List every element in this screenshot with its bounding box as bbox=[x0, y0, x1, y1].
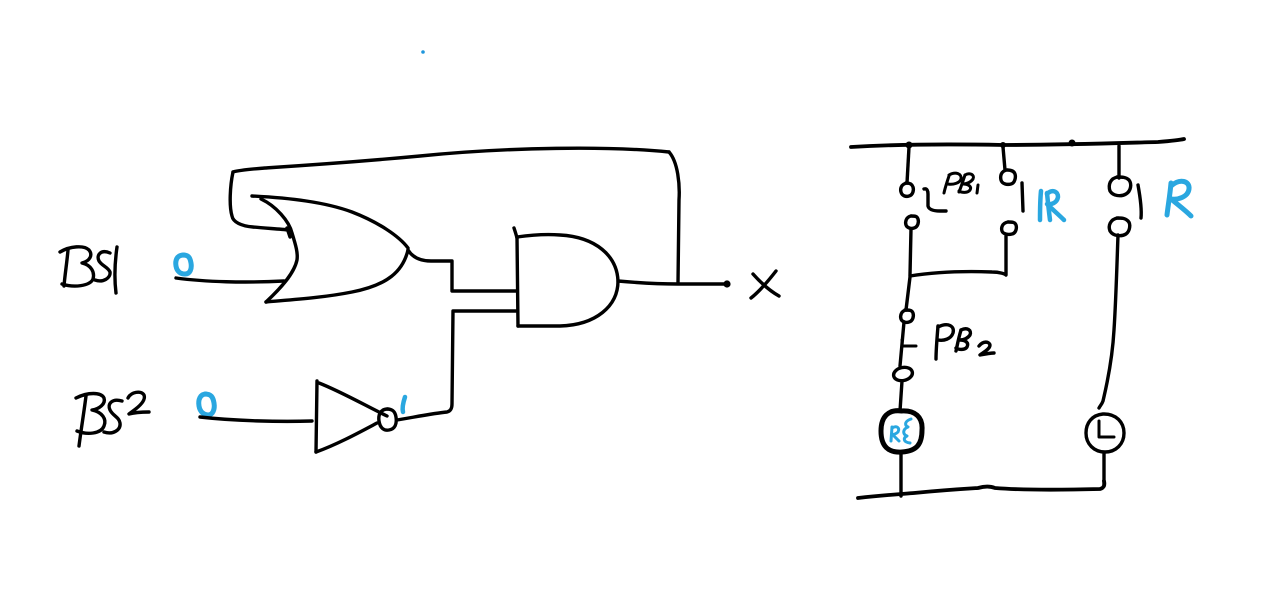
wire coil to bottom rail bbox=[899, 452, 902, 496]
NOT bubble bbox=[379, 409, 396, 430]
relay coil R bbox=[881, 411, 922, 452]
junction dot (rail) bbox=[1069, 140, 1076, 147]
PB1 upper terminal bbox=[901, 183, 914, 196]
wire PB2 to relay coil bbox=[900, 381, 902, 411]
wire BS2 input bbox=[200, 417, 312, 421]
contact R actuator (branch 2) bbox=[1022, 183, 1023, 211]
feedback wire (output X back to OR input) bbox=[230, 148, 679, 283]
node 0 : BS2 input value (cyan) bbox=[199, 394, 214, 415]
wire + PB2 actuator bbox=[900, 322, 904, 366]
wire PB1 to junction node A bbox=[910, 229, 911, 275]
label BS2 bbox=[76, 392, 149, 446]
label PB1 bbox=[944, 173, 978, 193]
PB2 lower terminal (ellipse) bbox=[892, 366, 913, 383]
junction dot (branch 2 / rail) bbox=[1000, 142, 1006, 148]
top rail L1 bbox=[851, 139, 1184, 147]
contact R lower terminal (branch 2) bbox=[1002, 222, 1017, 234]
wire rail to PB1 upper terminal bbox=[907, 147, 909, 183]
wire OR output to AND input A bbox=[408, 250, 516, 291]
wire AND output to node X bbox=[618, 281, 725, 284]
label PB2 bbox=[936, 325, 994, 359]
contact R upper terminal (branch 3) bbox=[1109, 177, 1130, 196]
node 0 : BS1 input value (cyan) bbox=[176, 255, 191, 274]
node A : junction wire to branch 2 (seal-in) bbox=[910, 236, 1006, 276]
wire contact R to lamp bbox=[1099, 235, 1118, 408]
NOT gate U3 (inverter) bbox=[316, 381, 387, 452]
bottom rail L2 bbox=[858, 481, 1104, 498]
wire rail to contact R (branch 2) bbox=[1003, 147, 1005, 170]
wire junction A to PB2 bbox=[906, 277, 910, 310]
lamp letter L bbox=[1099, 421, 1114, 437]
label R (branch 3, cyan) bbox=[1167, 181, 1191, 216]
label BS1 bbox=[60, 247, 117, 293]
PB2 upper terminal bbox=[901, 310, 914, 322]
lamp L bbox=[1086, 414, 1124, 452]
contact R lower terminal (branch 3) bbox=[1109, 218, 1129, 236]
wire NOT output to AND input B bbox=[397, 311, 516, 420]
OR gate U1 bbox=[252, 196, 408, 302]
label X bbox=[751, 271, 779, 298]
coil label RE (cyan) bbox=[891, 419, 911, 443]
node 1 : NOT output value (cyan) bbox=[403, 397, 405, 412]
contact R actuator (branch 3) bbox=[1138, 185, 1141, 218]
stray dot bbox=[421, 50, 425, 54]
PB1 actuator bbox=[924, 189, 946, 211]
wire BS1 input bbox=[176, 278, 284, 282]
junction dot (branch 1 / rail) bbox=[906, 142, 913, 149]
contact R upper terminal (branch 2) bbox=[1001, 170, 1016, 184]
AND gate U2 bbox=[514, 228, 618, 326]
label R (branch 2, cyan) bbox=[1040, 191, 1064, 220]
wire rail to contact R (branch 3) bbox=[1117, 146, 1120, 178]
wire lamp to bottom rail bbox=[1102, 453, 1105, 486]
PB1 lower terminal bbox=[906, 216, 919, 228]
node X terminal dot bbox=[723, 280, 730, 287]
